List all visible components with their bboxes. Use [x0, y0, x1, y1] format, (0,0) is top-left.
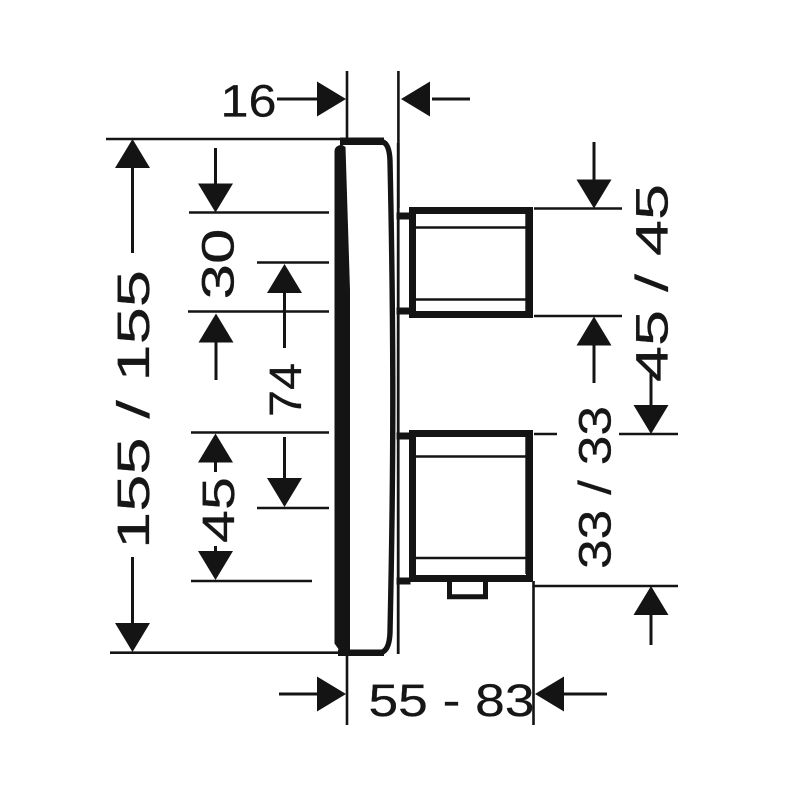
faceplate back edge line: [397, 143, 400, 654]
arrowhead 45/45 down: [577, 180, 612, 209]
dim 55-83 left shaft: [279, 693, 317, 696]
arrowhead 16 pointing left: [401, 82, 430, 117]
svg-text:33 / 33: 33 / 33: [570, 406, 621, 569]
dim 45 lower shaft: [214, 546, 217, 554]
arrowhead 33/33 down: [634, 405, 669, 434]
arrowhead 30 down: [198, 184, 233, 213]
svg-text:155 / 155: 155 / 155: [108, 270, 159, 549]
top knob inner bottom line: [415, 298, 527, 300]
extension line top left of 16 dim: [346, 71, 349, 139]
left line at lower knob axis L6: [257, 507, 329, 510]
left line at knob axis L3: [257, 261, 329, 264]
svg-text:16: 16: [221, 76, 277, 127]
extension line top right of 16 dim: [397, 71, 400, 208]
left line at lower knob top L5: [191, 431, 329, 434]
top knob inner right line: [525, 212, 527, 313]
arrowhead 74 down: [267, 478, 302, 507]
faceplate top-right corner and convex face arc: [382, 142, 393, 653]
svg-text:55 - 83: 55 - 83: [369, 675, 535, 726]
dim 30 upper shaft: [214, 148, 217, 188]
bottom knob spout tab: [450, 580, 486, 597]
arrowhead 30 up: [199, 314, 234, 343]
left top reference line L1: [106, 138, 341, 141]
arrowhead 155/155 up: [115, 139, 150, 168]
dim 16 left leader shaft: [277, 98, 317, 101]
dim 55-83 right shaft: [563, 693, 607, 696]
bottom knob lower mounting stub: [397, 578, 411, 585]
right dim line R3 lower knob top: [534, 433, 678, 436]
bottom extension line left: [346, 654, 349, 725]
svg-text:45: 45: [193, 477, 244, 543]
arrowhead 74 up: [267, 264, 302, 293]
dim 74 upper shaft: [283, 292, 286, 348]
dim 155/155 lower shaft: [131, 557, 134, 625]
faceplate top edge: [340, 138, 384, 146]
svg-text:30: 30: [193, 229, 244, 300]
dim 74 lower shaft: [283, 437, 286, 480]
dim 45/45 upper shaft: [593, 142, 596, 182]
arrowhead 33/33 up: [634, 586, 669, 615]
bottom knob upper mounting stub: [397, 433, 411, 440]
arrowhead 55-83 pointing right: [317, 677, 346, 712]
right dim line R2 knob bottom: [534, 315, 622, 318]
bottom knob inner top line: [415, 455, 527, 457]
arrowhead 55-83 pointing left: [535, 677, 564, 712]
dim 33/33 upper shaft: [650, 373, 653, 408]
arrowhead 45 up: [198, 434, 233, 463]
faceplate bottom edge: [338, 649, 384, 656]
dim 33/33 lower shaft: [650, 612, 653, 645]
dim 155/155 upper shaft: [131, 166, 134, 253]
faceplate front thick edge bar: [335, 145, 351, 651]
dim 30 lower shaft: [215, 342, 218, 380]
dim 16 right leader shaft: [432, 98, 470, 101]
top knob lower mounting stub: [397, 308, 411, 315]
top knob upper mounting stub: [397, 213, 411, 220]
arrowhead 45/45 up: [577, 317, 612, 346]
dim 45/45 lower shaft: [593, 343, 596, 383]
svg-text:45 / 45: 45 / 45: [627, 184, 678, 382]
left line at lower knob bottom L7: [191, 580, 312, 583]
bottom extension line right: [532, 581, 535, 725]
bottom knob inner right line: [525, 437, 527, 574]
right dim line R4 lower knob bottom: [534, 585, 678, 588]
top knob inner top line: [415, 226, 527, 228]
dim 45 upper shaft: [214, 460, 217, 472]
bottom knob outer square: [413, 434, 530, 579]
left line at knob bottom L4: [188, 310, 329, 313]
bottom reference line L8: [110, 651, 341, 654]
top knob outer square: [413, 211, 530, 315]
arrowhead 45 down: [198, 551, 233, 580]
svg-text:74: 74: [260, 363, 311, 417]
arrowhead 155/155 down: [115, 623, 150, 652]
left line at knob top L2: [189, 211, 329, 214]
bottom knob inner bottom line: [415, 557, 527, 559]
arrowhead 16 pointing right: [317, 82, 346, 117]
right dim line R1 knob top: [534, 207, 622, 210]
